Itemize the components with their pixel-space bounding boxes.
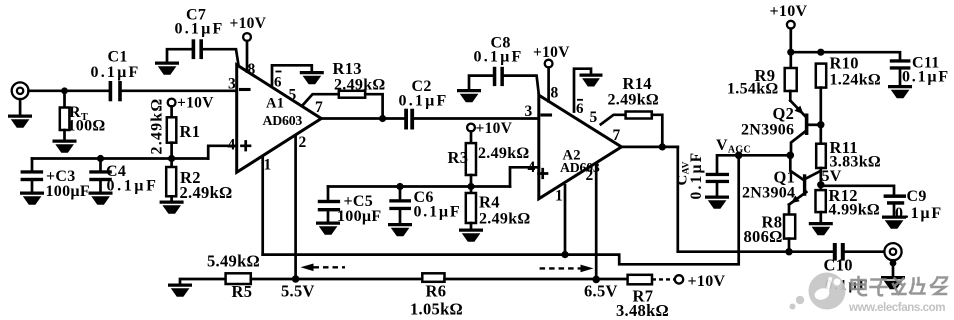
node VAGC	[735, 152, 743, 160]
pin 1 stub A1	[261, 156, 264, 254]
ground under C11	[888, 85, 912, 98]
wire C3 to ground	[31, 181, 34, 192]
svg-text:R1: R1	[180, 122, 201, 141]
wire VAGC to transistor bases	[739, 154, 791, 157]
svg-text:5.49kΩ: 5.49kΩ	[207, 252, 260, 271]
resistor R3	[466, 143, 476, 175]
svg-text:1: 1	[264, 157, 272, 174]
wire rail to C4	[99, 159, 102, 171]
svg-text:R14: R14	[623, 74, 652, 93]
svg-text:0.1µF: 0.1µF	[688, 151, 705, 200]
ground under C5	[316, 222, 340, 235]
wire C5 to ground	[327, 211, 330, 222]
svg-text:1.24kΩ: 1.24kΩ	[830, 72, 882, 89]
wire C2 to A2 pin3	[414, 117, 539, 120]
terminal +10V rail B	[675, 275, 683, 283]
svg-text:6: 6	[576, 101, 584, 117]
svg-text:0.1µF: 0.1µF	[902, 69, 950, 86]
svg-text:2.49kΩ: 2.49kΩ	[478, 145, 530, 162]
node 6.5V A2 pin2 junction	[592, 276, 600, 284]
wire output connector to ground	[892, 260, 895, 276]
wire R3 to rail	[470, 175, 473, 193]
wire +10V to R1	[170, 106, 173, 117]
capacitor C6	[389, 199, 411, 210]
watermark logo	[790, 273, 846, 310]
pin 2 stub A1	[294, 137, 297, 279]
watermark text 电子发烧友	[852, 277, 948, 295]
wire C9 to ground	[893, 205, 896, 216]
terminal +10V top right	[787, 21, 795, 29]
svg-text:R10: R10	[830, 54, 859, 73]
pin 4 wire A1	[208, 146, 237, 159]
svg-text:5.5V: 5.5V	[281, 282, 315, 301]
wire +10V to A2 pin8	[547, 68, 550, 102]
wire bottom rail ground to R5	[180, 279, 226, 284]
pin 5 stub A2	[601, 115, 626, 125]
svg-text:2: 2	[299, 134, 307, 151]
capacitor C2	[404, 109, 414, 130]
wire C4 to ground	[99, 181, 102, 192]
wire +10V down to R9 node	[789, 29, 792, 68]
wire R10 bottom to node	[819, 88, 822, 144]
wire A1 output to C2	[321, 117, 404, 120]
svg-text:+10V: +10V	[770, 3, 808, 20]
svg-text:2N3904: 2N3904	[742, 185, 795, 202]
ground A2 pin6	[580, 74, 603, 87]
ground under CAV	[705, 196, 729, 209]
node 5V	[817, 181, 824, 188]
svg-text:0.1µF: 0.1µF	[91, 64, 141, 81]
resistor R4	[466, 193, 476, 223]
wire C11 to ground	[899, 70, 902, 86]
svg-text:2N3906: 2N3906	[741, 122, 794, 139]
wire C7 left to ground	[167, 49, 192, 62]
wire C6 to ground	[399, 210, 402, 223]
pin 6 stub A2	[574, 69, 591, 112]
pin 4 wire A2	[510, 167, 539, 186]
svg-text:0.1µF: 0.1µF	[399, 93, 449, 110]
svg-text:6: 6	[274, 75, 282, 91]
ground left of C7	[155, 62, 179, 75]
wire C7 right to A1 pin8 vertex	[203, 49, 238, 64]
pin 6 stub A1	[272, 65, 312, 84]
svg-text:7: 7	[613, 127, 621, 144]
wire R2 to ground	[170, 196, 173, 201]
wire R7 to +10V terminal dashed	[652, 278, 674, 280]
ground under output connector	[881, 276, 905, 289]
svg-text:8: 8	[551, 85, 559, 102]
resistor RT	[60, 108, 70, 131]
wire rail to C6	[399, 187, 402, 200]
op-amp A2 AD603	[539, 95, 622, 199]
node C6 rail junction	[396, 183, 403, 190]
dashed arrow right	[540, 265, 594, 273]
wire R14 to output node	[652, 115, 663, 147]
wire R1 to rail	[170, 143, 173, 167]
resistor R9	[785, 68, 797, 91]
capacitor C3	[21, 170, 43, 181]
wire R9 to Q2 emitter	[789, 91, 792, 101]
svg-text:1.05kΩ: 1.05kΩ	[410, 300, 463, 319]
capacitor C4	[89, 170, 112, 181]
pin 2 stub A2	[595, 165, 598, 280]
node Q2 collector VAGC	[787, 152, 795, 160]
svg-text:C1: C1	[108, 49, 128, 66]
wire C1 to A1 pin3	[122, 89, 237, 92]
minus sign A1	[241, 88, 250, 91]
svg-text:2: 2	[586, 167, 594, 184]
capacitor C10	[833, 243, 845, 261]
svg-text:R3: R3	[448, 148, 469, 167]
svg-text:7: 7	[315, 99, 323, 116]
wire RT to ground	[63, 130, 66, 141]
terminal +10V A1	[243, 33, 251, 41]
resistor R14	[626, 112, 652, 119]
ground under R2	[160, 201, 184, 214]
svg-text:+10V: +10V	[533, 44, 570, 61]
svg-text:+10V: +10V	[230, 15, 267, 32]
svg-text:3: 3	[228, 76, 236, 93]
dashed arrow left	[301, 264, 346, 272]
svg-text:0.1µF: 0.1µF	[175, 21, 225, 38]
output connector J2	[884, 243, 901, 260]
wire C8 left to ground	[469, 76, 493, 90]
capacitor C5	[318, 200, 340, 212]
svg-text:100µF: 100µF	[46, 183, 91, 200]
terminal +10V R1	[168, 99, 176, 107]
resistor R10	[816, 64, 826, 88]
svg-text:Q2: Q2	[773, 104, 795, 123]
resistor R7	[628, 275, 652, 285]
svg-text:100Ω: 100Ω	[68, 118, 106, 135]
ground under C3	[20, 192, 44, 205]
wire VAGC to CAV	[717, 155, 739, 173]
svg-text:2.49kΩ: 2.49kΩ	[334, 77, 386, 94]
ground under R4	[459, 229, 483, 242]
svg-text:0.1µF: 0.1µF	[107, 178, 159, 195]
wire rail to C5	[327, 187, 330, 200]
node R1 R2 rail junction	[168, 155, 175, 162]
svg-text:0.1µF: 0.1µF	[474, 49, 524, 66]
node R8 output line junction	[785, 248, 792, 255]
resistor R12	[816, 190, 826, 212]
resistor R11	[816, 144, 826, 168]
plus sign A1	[242, 142, 251, 151]
capacitor CAV	[706, 173, 729, 183]
ground under C4	[89, 192, 113, 205]
terminal +10V R3	[467, 124, 475, 132]
svg-text:3: 3	[525, 103, 533, 120]
wire +10V to R3	[470, 131, 473, 143]
wire R8 to C10 line	[788, 239, 791, 252]
ground under R12	[809, 222, 833, 235]
node R10 top	[817, 49, 824, 56]
wire A2 output	[622, 146, 678, 149]
resistor R8	[784, 215, 795, 239]
svg-text:R4: R4	[479, 193, 500, 212]
svg-text:3.48kΩ: 3.48kΩ	[616, 301, 669, 320]
wire C8 right to A2 pin8 vertex	[504, 76, 539, 95]
svg-text:AD603: AD603	[560, 160, 600, 175]
wire 5V node to C9	[821, 186, 894, 195]
resistor R13	[339, 91, 365, 98]
node A2 pin1 on gain rail	[561, 251, 568, 258]
wire rail to C3	[31, 159, 34, 171]
svg-text:4.99kΩ: 4.99kΩ	[829, 202, 881, 219]
pin 6 label A2 with overbar	[576, 100, 584, 117]
terminal +10V A2	[545, 60, 553, 68]
capacitor C7	[192, 39, 203, 59]
wire CAV to ground	[716, 183, 719, 196]
wire A2 output down to C10 line	[676, 147, 679, 252]
wire rail C5 C6 R3 R4	[328, 185, 510, 188]
op-amp A1 AD603	[237, 65, 322, 173]
node Q2 base R10 R11	[817, 121, 824, 128]
wire C10 to output connector	[845, 250, 885, 253]
wire R4 to ground	[470, 223, 473, 229]
capacitor C8	[493, 67, 504, 86]
wire Q2 base to R10 R11 node	[808, 123, 820, 126]
pin 5 stub A1	[303, 94, 339, 105]
svg-text:www.elecfans.com: www.elecfans.com	[848, 301, 945, 314]
wire Q1 emitter to R8	[788, 205, 791, 215]
resistor R5	[226, 273, 251, 284]
node under output connector	[890, 260, 897, 267]
minus sign A2	[542, 113, 551, 116]
wire output line to C10	[678, 250, 833, 253]
wire junction to RT	[63, 91, 66, 108]
transistor Q1 2N3904	[789, 155, 821, 204]
pin 6 label A1 with overbar	[274, 72, 282, 91]
svg-text:C9: C9	[907, 188, 927, 205]
ground under C9	[882, 216, 906, 229]
node A2 output/R14 junction	[659, 143, 666, 150]
svg-text:2.49kΩ: 2.49kΩ	[149, 98, 166, 155]
svg-text:AD603: AD603	[263, 113, 303, 128]
svg-text:5V: 5V	[822, 168, 842, 185]
node R3 R4 rail junction	[467, 183, 474, 190]
wire R6 to R7	[445, 278, 628, 281]
pin 1 stub A2	[564, 185, 567, 254]
svg-text:+10V: +10V	[688, 273, 726, 290]
svg-text:806Ω: 806Ω	[744, 227, 783, 246]
resistor R6	[422, 273, 444, 282]
ground under C6	[388, 223, 412, 236]
transistor Q2 2N3906	[790, 101, 808, 155]
node A1 output/R13 junction	[379, 115, 386, 122]
svg-text:0.1µF: 0.1µF	[895, 205, 943, 222]
wire R11 to 5V node	[819, 168, 822, 190]
wire input connector to ground stem	[19, 99, 22, 116]
node C4 rail junction	[97, 155, 104, 162]
svg-text:2.49kΩ: 2.49kΩ	[479, 211, 531, 228]
wire input to C1	[29, 89, 109, 92]
node R9 top rail	[787, 49, 794, 56]
resistor R1	[167, 117, 177, 142]
ground left of C8	[457, 89, 481, 102]
svg-text:R5: R5	[232, 282, 253, 301]
svg-text:C10: C10	[824, 256, 853, 275]
ground left of R5	[168, 284, 192, 297]
ground under RT	[53, 140, 77, 153]
node 5.5V A1 pin2 junction	[292, 275, 300, 283]
wire +10V to A1 pin8	[246, 41, 249, 72]
resistor R2	[166, 167, 176, 196]
svg-text:6.5V: 6.5V	[584, 282, 618, 301]
svg-text:1.54kΩ: 1.54kΩ	[727, 81, 779, 98]
svg-text:5: 5	[289, 87, 297, 104]
capacitor C9	[884, 194, 906, 204]
svg-text:+10V: +10V	[476, 120, 513, 137]
capacitor C11	[890, 59, 911, 69]
svg-text:2.49kΩ: 2.49kΩ	[180, 183, 233, 202]
ground under input connector	[8, 115, 32, 128]
node input/RT junction	[61, 87, 68, 94]
svg-text:+10V: +10V	[177, 95, 214, 112]
wire gain rail A1 pin1 to VAGC	[263, 155, 739, 264]
plus sign A2	[539, 169, 548, 178]
svg-text:5: 5	[590, 109, 598, 126]
svg-text:100µF: 100µF	[337, 208, 382, 225]
svg-text:R6: R6	[426, 282, 447, 301]
wire R12 to ground	[819, 212, 822, 222]
svg-text:A1: A1	[266, 96, 284, 112]
ground A1 pin6	[300, 71, 324, 84]
wire rail C3 C4 R1 R2	[32, 157, 208, 160]
svg-text:0.1µF: 0.1µF	[414, 204, 462, 221]
svg-text:R13: R13	[333, 59, 362, 78]
input connector J1	[12, 82, 29, 99]
svg-text:2.49kΩ: 2.49kΩ	[608, 92, 660, 109]
capacitor C1	[109, 81, 122, 101]
wire top rail to C11	[791, 52, 900, 59]
wire R13 to output node	[365, 94, 382, 118]
wire R5 to R6	[251, 278, 422, 281]
svg-text:1: 1	[555, 188, 563, 205]
